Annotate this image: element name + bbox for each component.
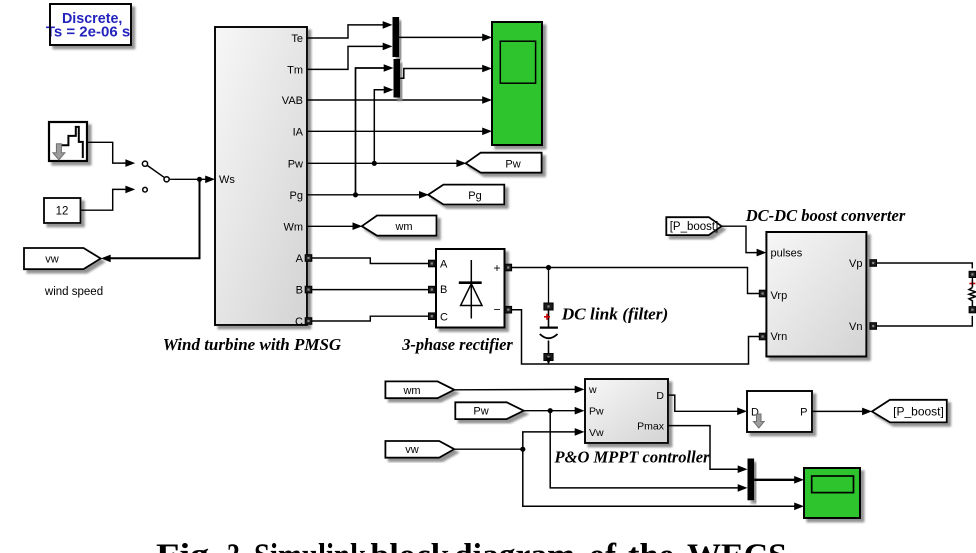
port pad A of PMSG	[305, 255, 312, 262]
svg-text:vw: vw	[405, 444, 419, 456]
port pad boost Vrp	[759, 290, 766, 297]
subsystem block P&O MPPT controller	[585, 379, 668, 443]
wire source to switch input 1	[87, 142, 135, 167]
from tag [P_boost]	[666, 217, 721, 235]
svg-text:Pw: Pw	[589, 406, 604, 418]
label P&amp;O MPPT controller	[554, 448, 710, 467]
goto tag [P_boost]	[872, 400, 947, 423]
wire MPPT Pmax to mux3 input 1	[668, 426, 748, 473]
port pad rectifier -	[505, 306, 512, 313]
wire boost Vp to load	[877, 263, 973, 268]
svg-text:pulses: pulses	[771, 248, 803, 260]
svg-text:Te: Te	[291, 33, 303, 45]
goto tag Pg	[428, 185, 504, 205]
wire switch to Ws input	[175, 176, 216, 184]
label Wind turbine with PMSG	[163, 335, 342, 354]
svg-text:DC link (filter): DC link (filter)	[561, 304, 669, 323]
svg-text:DC-DC boost converter: DC-DC boost converter	[745, 206, 906, 225]
svg-text:of: of	[589, 538, 617, 553]
svg-text:Pg: Pg	[290, 190, 303, 202]
svg-text:Vw: Vw	[589, 427, 604, 439]
svg-text:WECS: WECS	[687, 538, 787, 553]
node on Pw wire to mux	[548, 408, 553, 413]
goto tag wm	[362, 216, 437, 236]
svg-text:A: A	[440, 259, 448, 271]
from tag Pw	[455, 402, 524, 419]
mux block mux3	[748, 459, 755, 501]
svg-text:Pw: Pw	[473, 406, 488, 418]
svg-text:diagram: diagram	[454, 538, 575, 553]
wire rectifier - to boost Vrn (negative DC rail)	[512, 310, 760, 364]
svg-text:Pw: Pw	[288, 158, 303, 170]
svg-text:B: B	[440, 284, 447, 296]
wire mux2 output to scope input 2	[400, 65, 492, 79]
svg-text:3: 3	[227, 538, 240, 553]
manual switch	[142, 161, 174, 192]
wire vw branch down to scope2 input 2	[523, 449, 804, 510]
from tag vw	[385, 441, 454, 458]
svg-text:Pg: Pg	[468, 190, 481, 202]
port pad B of PMSG	[305, 286, 312, 293]
svg-text:P: P	[800, 406, 807, 418]
svg-text:[P_boost]: [P_boost]	[670, 221, 719, 233]
subsystem block DC-DC boost converter	[766, 232, 866, 357]
svg-text:Vp: Vp	[849, 258, 862, 270]
subsystem block 3-phase rectifier	[436, 249, 505, 328]
node on Pw wire	[372, 161, 377, 166]
wire VAB to scope input 3	[307, 96, 492, 104]
svg-text:IA: IA	[293, 126, 304, 138]
svg-text:Pw: Pw	[505, 158, 520, 170]
svg-text:vw: vw	[45, 254, 59, 266]
svg-text:Vrn: Vrn	[771, 331, 788, 343]
svg-text:Vn: Vn	[849, 321, 862, 333]
svg-text:Tm: Tm	[287, 64, 303, 76]
port pad rectifier +	[505, 264, 512, 271]
wire rectifier + to boost Vrp (positive DC rail)	[512, 268, 760, 294]
port pad rectifier A	[429, 260, 436, 267]
svg-text:12: 12	[56, 206, 69, 218]
svg-text:Fig.: Fig.	[156, 538, 219, 553]
node on Pg wire	[353, 192, 358, 197]
label DC-DC boost converter	[745, 206, 906, 225]
signal source block (wind profile)	[49, 122, 87, 161]
wire constant to switch input 2	[81, 186, 136, 211]
wire junction down-left to vw goto tag	[101, 179, 200, 262]
label wind speed	[44, 286, 103, 298]
wire wm to MPPT w input	[454, 386, 584, 394]
wire Te to mux1 input 1	[307, 21, 393, 38]
port pad boost Vp	[870, 260, 877, 267]
node DC link + junction	[546, 265, 551, 270]
svg-text:wm: wm	[394, 221, 412, 233]
PWM generator block (D to P)	[747, 391, 812, 432]
svg-text:Vrp: Vrp	[771, 290, 788, 302]
wire PMSG C to rectifier C	[312, 316, 428, 321]
wire Wm to goto tag wm	[307, 222, 362, 230]
svg-text:Wind turbine with PMSG: Wind turbine with PMSG	[163, 335, 342, 354]
node junction to vw goto	[197, 177, 202, 182]
scope block (4 inputs)	[492, 22, 542, 145]
svg-text:wm: wm	[402, 385, 420, 397]
from tag wm	[385, 381, 454, 398]
svg-text:C: C	[295, 316, 303, 328]
svg-text:3-phase rectifier: 3-phase rectifier	[401, 335, 513, 354]
wire [P_boost] to boost pulses input	[722, 226, 767, 256]
wire Pg to goto tag Pg	[307, 191, 429, 199]
diode symbol inside rectifier	[459, 260, 482, 319]
svg-text:A: A	[296, 253, 304, 265]
powergui block "Discrete, Ts = 2e-06 s"	[46, 4, 131, 45]
svg-text:the: the	[628, 538, 674, 553]
wire Pg branch up to mux2 input 1	[356, 64, 394, 195]
svg-text:Simulink: Simulink	[254, 538, 366, 553]
wire PMSG A to rectifier A	[312, 258, 428, 264]
svg-text:Wm: Wm	[283, 221, 303, 233]
svg-text:wind speed: wind speed	[44, 286, 103, 298]
svg-text:−: −	[493, 303, 500, 317]
wire Pw branch down to mux3 input 2	[550, 411, 747, 492]
wire vw branch up to MPPT Vw input	[523, 428, 585, 449]
svg-text:P&O MPPT controller: P&O MPPT controller	[554, 448, 710, 467]
svg-text:VAB: VAB	[282, 95, 303, 107]
svg-text:block: block	[371, 538, 450, 553]
goto tag Pw	[466, 153, 542, 173]
svg-text:D: D	[656, 390, 664, 402]
goto tag vw	[24, 248, 101, 269]
wire PWM P output to goto tag [P_boost]	[812, 408, 872, 416]
wire mux1 output to scope input 1	[399, 34, 492, 42]
label 3-phase rectifier	[401, 335, 513, 354]
wire Pw to MPPT Pw input	[524, 407, 585, 415]
subsystem block Wind turbine with PMSG	[215, 27, 307, 328]
wire IA to scope input 4	[307, 128, 492, 136]
wire Tm to mux1 input 2	[307, 43, 393, 70]
wire boost Vn to load	[877, 316, 973, 326]
wire MPPT D to PWM generator input	[668, 395, 747, 415]
port pad rectifier C	[429, 313, 436, 320]
port pad rectifier B	[429, 286, 436, 293]
mux block mux2	[394, 59, 401, 98]
wire vw to junction	[454, 448, 523, 450]
capacitor DC link	[540, 268, 558, 365]
svg-text:Pmax: Pmax	[637, 421, 665, 433]
load resistor branch (series RLC)	[969, 271, 976, 313]
svg-text:[P_boost]: [P_boost]	[893, 405, 944, 419]
label DC link (filter)	[561, 304, 669, 323]
scope block 2 (2 inputs)	[804, 468, 860, 518]
wire mux3 output to scope2 input 1	[754, 476, 804, 484]
svg-text:Ws: Ws	[219, 174, 235, 186]
svg-text:C: C	[440, 311, 448, 323]
svg-text:w: w	[588, 384, 597, 396]
svg-text:B: B	[296, 285, 303, 297]
wire Pw branch up to mux2 input 2	[374, 86, 393, 163]
port pad boost Vn	[870, 323, 877, 330]
node on vw wire	[520, 447, 525, 452]
port pad C of PMSG	[305, 318, 312, 325]
mux block mux1	[393, 17, 400, 57]
svg-text:+: +	[493, 261, 500, 275]
caption Fig. 3 Simulink block diagram of the WECS	[156, 538, 787, 553]
port pad boost Vrn	[759, 333, 766, 340]
svg-text:Ts = 2e-06 s: Ts = 2e-06 s	[46, 24, 130, 41]
wire PMSG B to rectifier B	[312, 289, 428, 291]
wire Pw to goto tag Pw	[307, 160, 466, 168]
constant block 12	[44, 198, 81, 223]
